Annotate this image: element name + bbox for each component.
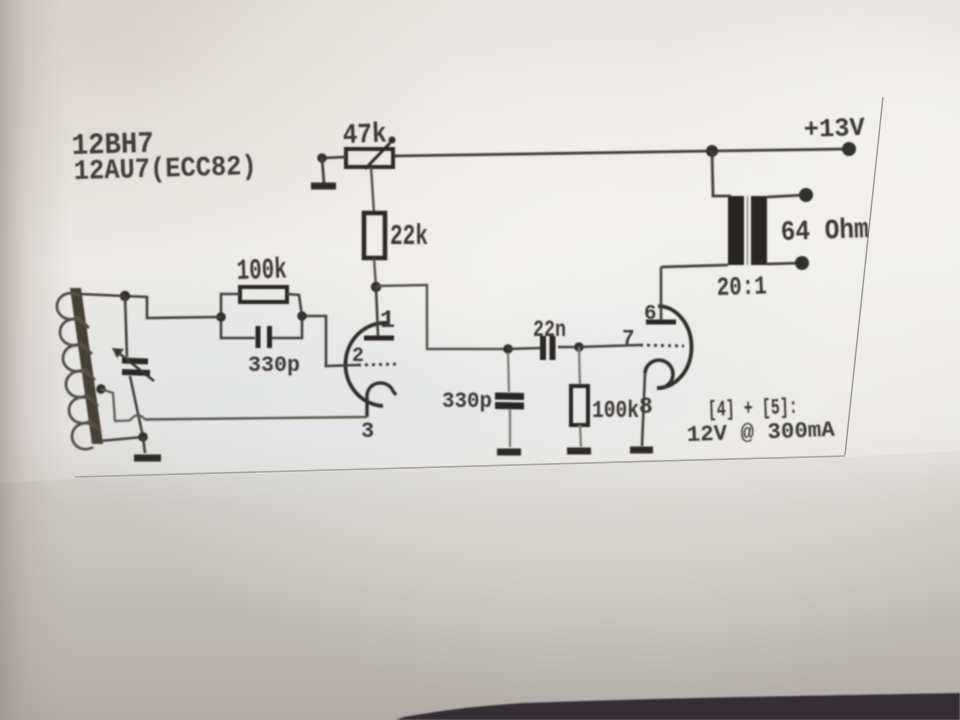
resistor 100k bias [579, 347, 580, 386]
wire tap to bus [101, 389, 130, 421]
wire 330p left lead [221, 317, 255, 338]
node coil tap [96, 384, 106, 394]
variable capacitor C1 [125, 296, 127, 357]
svg-text:100k: 100k [592, 398, 639, 425]
anode plate U1b [646, 320, 676, 325]
page bottom edge line [75, 456, 845, 477]
wire bus hop over stem [130, 415, 145, 420]
node right [297, 311, 307, 321]
anode plate U1a [364, 336, 394, 341]
svg-text:12AU7(ECC82): 12AU7(ECC82) [73, 152, 257, 188]
wire 100k right lead [287, 294, 302, 316]
wire varcap bottom stem [130, 376, 143, 437]
capacitor 22n plate left [540, 336, 546, 360]
wire anode 2 lead up [660, 267, 663, 320]
wire anode lead [376, 287, 378, 336]
node secondary bottom [795, 256, 809, 270]
page right edge line [845, 97, 883, 455]
svg-text:3: 3 [361, 419, 374, 444]
ground (tank) [143, 437, 145, 453]
svg-text:6: 6 [644, 303, 657, 326]
wire 22n left lead [508, 348, 540, 349]
core [747, 196, 749, 265]
svg-text:330p: 330p [248, 353, 300, 378]
svg-text:330p: 330p [442, 389, 492, 414]
node anode [371, 282, 381, 292]
secondary winding [751, 196, 767, 265]
capacitor 330p cathode [508, 353, 509, 392]
wire pot left lead [322, 157, 346, 158]
resistor 22k [364, 213, 385, 258]
svg-text:12V @ 300mA: 12V @ 300mA [686, 418, 836, 448]
wire secondary top lead [767, 195, 806, 197]
ground (pot) [322, 158, 324, 183]
wire bus to cathode [145, 417, 367, 420]
grid U1b dashed [640, 345, 684, 346]
node +13V terminal [842, 142, 856, 156]
primary winding [728, 196, 744, 265]
triode U1b envelope [657, 306, 692, 388]
svg-text:8: 8 [639, 394, 653, 420]
ground (cathode 2) [630, 447, 653, 454]
label 12BH7 / 12AU7(ECC82) [71, 128, 257, 188]
cathode U1b [645, 360, 673, 388]
node coil top [120, 291, 130, 301]
resistor 100k grid leak [240, 287, 287, 302]
capacitor 330p grid plate left [256, 326, 261, 348]
wire grid network to grid [302, 316, 358, 366]
grid U1a (dashed) [358, 364, 400, 365]
node rail junction [706, 145, 718, 157]
below-page dimming [0, 451, 960, 720]
wire coil bottom lead [100, 437, 143, 441]
ground (100k) [567, 448, 591, 455]
wire cathode 2 lead [642, 373, 645, 446]
wire coil top lead [80, 294, 125, 296]
wire 100k left lead [221, 294, 240, 317]
wire 22n right lead [558, 346, 579, 349]
wire pot wiper to 22k [371, 167, 374, 213]
wire 330p right lead [272, 316, 302, 338]
wire network to coil [125, 296, 221, 318]
coil L1 turns [57, 293, 101, 449]
node coupling right [574, 342, 584, 352]
svg-text:100k: 100k [236, 253, 287, 288]
node secondary top [799, 188, 813, 202]
svg-text:+13V: +13V [803, 113, 865, 145]
wire: +13V rail [393, 149, 849, 156]
capacitor 22n plate right [550, 336, 556, 360]
svg-text:47k: 47k [342, 119, 387, 152]
svg-text:22n: 22n [533, 317, 566, 343]
wire grid 2 lead [579, 345, 640, 347]
wire anode node to coupling (right, down) [376, 285, 508, 349]
node ground junction [138, 432, 148, 442]
triode U1a envelope [345, 323, 387, 406]
potentiometer R1 47k [346, 149, 393, 167]
wire 22k to anode node [374, 258, 376, 287]
ground (330p) [497, 449, 521, 456]
node left [216, 312, 226, 322]
svg-text:22k: 22k [390, 220, 428, 253]
wire secondary bottom lead [767, 263, 802, 264]
node pot left [317, 153, 327, 163]
svg-text:20:1: 20:1 [716, 271, 767, 303]
capacitor 330p grid plate right [267, 326, 272, 348]
svg-text:1: 1 [380, 306, 395, 335]
dark screen bar at bottom [396, 693, 960, 720]
wire primary bottom lead [661, 265, 728, 267]
wire primary top lead [712, 151, 731, 196]
svg-text:64 Ohm: 64 Ohm [780, 215, 869, 249]
node coupling left [503, 344, 513, 354]
svg-text:7: 7 [622, 328, 635, 351]
coil L1 core bar [70, 288, 103, 444]
cathode U1a [367, 383, 396, 417]
